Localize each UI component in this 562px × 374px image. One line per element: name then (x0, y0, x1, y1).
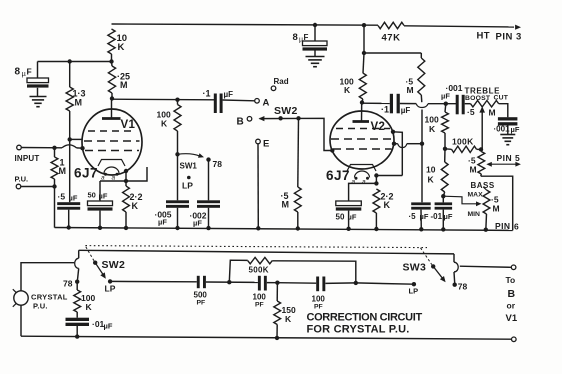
label 10K lower (426, 165, 436, 185)
HT arrowhead to PIN 3 (515, 25, 521, 30)
svg-text:LP: LP (409, 287, 419, 296)
svg-text:100K: 100K (452, 137, 474, 147)
label P.U. (15, 175, 29, 184)
resistor 150K (274, 283, 281, 338)
label .25M (117, 72, 130, 91)
label .005uF (155, 210, 172, 227)
label .5M filter (406, 77, 414, 96)
label LP SW1 (182, 181, 193, 191)
capacitor 8uF second (303, 25, 328, 56)
label 78 SW2 (63, 279, 73, 289)
capacitor 50uF V1 (88, 201, 113, 228)
terminal P.U. (16, 184, 21, 189)
ground below 8uF first (30, 97, 47, 107)
label 6J7 V1 (74, 166, 98, 181)
label 2.2K V1 (130, 192, 143, 211)
svg-text:µF: µF (104, 322, 113, 331)
svg-text:P.U.: P.U. (15, 175, 29, 184)
SW3 pole (454, 254, 458, 283)
capacitor 500pF (197, 276, 206, 288)
label .5uF V1 (58, 192, 78, 203)
label CUT (494, 95, 509, 102)
node A1 decoupling junction (109, 59, 113, 63)
terminal E (256, 139, 261, 144)
label 100pF first (253, 293, 267, 309)
resistor 1M (51, 148, 58, 187)
svg-text:K: K (161, 119, 168, 129)
svg-text:M: M (489, 108, 496, 118)
capacitor .1uF second (390, 94, 400, 114)
tube V1 anode bar (102, 99, 121, 119)
wire 100pF second to corner (325, 282, 355, 285)
label V1 (121, 119, 136, 131)
tube V1 heater structure (98, 160, 125, 182)
label TREBLE (465, 87, 501, 96)
resistor 100K V2 anode (359, 53, 366, 103)
svg-text:F: F (27, 67, 32, 77)
svg-text:PIN 5: PIN 5 (497, 153, 521, 163)
svg-text:SW2: SW2 (102, 259, 126, 271)
svg-text:µF: µF (444, 212, 453, 221)
capacitor 100pF first (258, 276, 267, 291)
svg-text:SW3: SW3 (403, 262, 427, 274)
node ground rail 50uF V1 (98, 226, 102, 230)
svg-text:8: 8 (293, 32, 298, 43)
svg-text:PIN 3: PIN 3 (496, 32, 522, 43)
label 47K (382, 33, 401, 44)
label SW2 upper (274, 105, 298, 117)
node ground rail .01uF (441, 227, 445, 231)
svg-text:K: K (428, 175, 435, 185)
node rail pickup (75, 334, 79, 338)
wire HT to node X (363, 25, 365, 53)
resistor 100K pickup (74, 282, 81, 318)
node ground rail .5uF (67, 225, 71, 229)
label 78 SW3 (458, 282, 468, 292)
wire input to grid (21, 145, 82, 148)
capacitor 8uF first (27, 62, 49, 97)
label .1uF second (381, 105, 410, 116)
SW2 lower blade (93, 261, 106, 279)
wire 1.3M down to .5uF (69, 139, 71, 202)
node ground rail E (256, 226, 260, 230)
svg-text:MIN: MIN (468, 211, 481, 218)
node 1.3M top (68, 59, 72, 63)
svg-text:µF: µF (348, 213, 357, 222)
node ground rail 50uF V2 (346, 227, 350, 231)
svg-text:SW2: SW2 (274, 105, 298, 117)
node HT junction 8uF (313, 23, 317, 27)
label .5uF V2 (409, 212, 429, 221)
svg-text:B: B (508, 288, 516, 300)
wire pin5 pot to pin6 rail (481, 176, 513, 230)
label BOOST (465, 95, 491, 102)
node ground rail .5M grid (296, 226, 300, 230)
svg-text:A: A (263, 98, 270, 109)
label MAX (468, 192, 484, 199)
node SW2 pivot (278, 116, 282, 120)
svg-text:µF: µF (401, 106, 411, 115)
svg-text:M: M (59, 166, 67, 176)
node V2 anode (360, 100, 364, 104)
resistor 100K vertical (442, 104, 449, 149)
label To B or V1 (506, 275, 518, 324)
label 150K (282, 305, 296, 324)
node grid entry V1 (80, 146, 84, 150)
wire PU to bottom rail (20, 305, 22, 336)
tube V2 heater structure (347, 165, 376, 186)
node SW1 pivot (175, 152, 179, 156)
svg-text:FOR CRYSTAL P.U.: FOR CRYSTAL P.U. (307, 324, 410, 336)
svg-text:·5: ·5 (409, 212, 417, 221)
node V2 cathode lower (374, 181, 378, 185)
node 1M bottom (52, 184, 56, 188)
node cathode loop junction (124, 179, 128, 183)
svg-text:HT: HT (477, 31, 490, 42)
node Q2 (479, 147, 483, 151)
wire 500pF to 100pF (206, 281, 258, 283)
svg-text:K: K (429, 124, 436, 134)
node HT junction 47K left (362, 23, 366, 27)
potentiometer treble .5M (471, 101, 499, 107)
label .002uF (190, 211, 207, 228)
node V2 screen side (391, 130, 395, 134)
svg-text:µF: µF (224, 90, 234, 99)
node V1 cathode (124, 169, 128, 173)
capacitor .005uF (166, 200, 189, 228)
label .5M grid (281, 191, 290, 210)
svg-text:µF: µF (511, 125, 520, 134)
wire upper ground rail (55, 228, 513, 231)
node ground rail .005uF (175, 226, 179, 230)
node contact 78 SW3 (453, 283, 457, 287)
tube V1 envelope (82, 109, 142, 175)
switch SW1 blade (178, 153, 205, 158)
label LP SW3 (409, 287, 419, 296)
svg-text:a: a (352, 179, 356, 186)
wire 1.3M to tube (70, 138, 82, 140)
svg-text:50: 50 (88, 191, 96, 200)
tube V2 grid dashes (331, 129, 393, 150)
capacitor .001 treble (456, 95, 465, 115)
svg-text:-01: -01 (431, 212, 443, 221)
label .001 treble (441, 83, 463, 101)
svg-text:M: M (407, 85, 414, 95)
svg-text:47K: 47K (382, 33, 401, 44)
resistor .5M filter (418, 53, 425, 102)
wire corner to LP SW3 (356, 283, 414, 284)
wire X to .5M filter (364, 52, 421, 54)
node contact LP SW1 (187, 176, 191, 180)
wire SW1 to .005uF (177, 154, 179, 200)
SW3 blade (431, 264, 446, 282)
node tap2 (275, 281, 279, 285)
svg-text:Rad: Rad (274, 77, 289, 86)
capacitor 50uF V2 (336, 201, 362, 229)
svg-text:6J7: 6J7 (326, 168, 350, 183)
svg-text:To: To (506, 275, 516, 285)
SW2 lower pole (75, 250, 79, 281)
label 2.2K V2 (381, 192, 394, 211)
label E (263, 139, 269, 150)
resistor .25M (108, 62, 115, 99)
capacitor .1uF first (214, 94, 223, 114)
node contact 78 SW1 (206, 157, 210, 161)
label 10K (117, 33, 128, 53)
svg-text:µ: µ (299, 37, 303, 44)
label .01uF V2 (431, 212, 453, 221)
capacitor .5uF V2 (411, 202, 431, 229)
svg-text:E: E (263, 139, 269, 150)
svg-text:LP: LP (105, 284, 116, 294)
svg-text:·1: ·1 (203, 89, 211, 99)
label 1M (59, 158, 67, 177)
wire 500K loop (229, 260, 355, 283)
label V2 (371, 121, 386, 133)
terminal to B or V1 (511, 265, 516, 270)
potentiometer bass .5M (483, 187, 490, 231)
node ground rail .002uF (206, 226, 210, 230)
node tap1 (227, 280, 231, 284)
node 1.3M bottom (68, 137, 72, 141)
svg-text:50: 50 (336, 213, 345, 222)
label .01uF pickup (92, 319, 113, 331)
svg-text:·5: ·5 (58, 192, 66, 202)
node contact LP SW2 (108, 279, 112, 283)
svg-text:CORRECTION CIRCUIT: CORRECTION CIRCUIT (307, 312, 423, 324)
node bass wiper junction (441, 194, 445, 198)
svg-text:78: 78 (63, 279, 73, 289)
label LP SW2 (105, 284, 116, 294)
label 78 SW1 (213, 159, 223, 169)
resistor 2.2K V2 (373, 189, 380, 229)
node V2 grid entry (330, 148, 334, 152)
ground below 8uF second (306, 57, 325, 67)
label 1.3M (73, 89, 86, 108)
svg-text:µF: µF (69, 194, 78, 203)
svg-text:or: or (507, 301, 516, 311)
potentiometer .5M pin5 (478, 152, 485, 177)
wire .5M filter to .5uF (421, 110, 423, 203)
wire 78 to .002uF (208, 160, 210, 201)
node ground rail bass (484, 228, 488, 232)
terminal A (255, 99, 260, 104)
resistor 500K (248, 257, 273, 263)
label .5M pin5 (468, 156, 477, 175)
resistor 10K lower (441, 149, 448, 196)
label 100K horizontal (452, 137, 474, 147)
svg-text:78: 78 (458, 282, 468, 292)
tube V1 grid dashes (84, 131, 140, 151)
resistor 47K (378, 22, 404, 28)
wire HT rail (112, 24, 515, 27)
node X (362, 51, 366, 55)
svg-text:K: K (285, 314, 292, 324)
svg-text:P.U.: P.U. (33, 302, 48, 311)
svg-text:10: 10 (426, 165, 436, 175)
wire V1 anode to A (112, 99, 255, 101)
svg-text:B: B (237, 117, 244, 128)
label SW2 lower (102, 259, 126, 271)
label .001uF ground (494, 125, 520, 135)
resistor 1.3M (66, 62, 73, 140)
svg-text:V1: V1 (506, 313, 518, 324)
svg-text:µF: µF (441, 92, 450, 101)
node ground rail 2.2K V1 (124, 226, 128, 230)
wire V2 anode to cap (362, 102, 390, 104)
label MIN (468, 211, 481, 218)
svg-text:K: K (384, 200, 391, 210)
node V2 grid side (392, 142, 396, 146)
wire SW3 pole to terminal (460, 266, 512, 267)
caption line 1 (307, 312, 423, 324)
svg-text:MAX: MAX (468, 192, 484, 199)
node contact 78 SW2 (75, 280, 79, 284)
svg-text:M: M (120, 80, 128, 90)
node V2 cathode (374, 173, 378, 177)
svg-text:M: M (493, 204, 500, 214)
resistor 2.2K V1 (123, 186, 130, 228)
svg-text:µF: µF (158, 218, 167, 227)
svg-text:K: K (118, 42, 125, 53)
svg-text:V1: V1 (121, 119, 136, 131)
node V1 anode (110, 96, 114, 100)
node Q1 (443, 147, 447, 151)
capacitor .5uF V1 (57, 202, 80, 227)
wire cap to treble with hop (400, 104, 456, 108)
label 100K V2 anode (340, 77, 354, 96)
svg-text:PIN: PIN (495, 221, 510, 231)
terminal bottom right (512, 337, 517, 342)
SW3 gang link (421, 248, 432, 265)
wire tap2 to 100pF second (277, 282, 316, 285)
ground below .001uF (500, 135, 515, 145)
svg-text:100: 100 (312, 295, 326, 304)
resistor 10K (108, 29, 115, 62)
label CRYSTAL P.U. (31, 293, 68, 311)
svg-text:6: 6 (514, 222, 519, 232)
wire PU to ground rail (21, 187, 55, 228)
label 50uF V1 (88, 191, 108, 201)
svg-text:78: 78 (213, 159, 223, 169)
resistor 100K V1 (174, 100, 181, 155)
svg-text:BASS: BASS (471, 181, 495, 190)
wire cathode loop (100, 167, 147, 201)
svg-text:6J7: 6J7 (74, 166, 98, 181)
node contact LP SW3 (412, 282, 416, 286)
svg-text:K: K (344, 85, 351, 95)
svg-text:K: K (86, 302, 93, 312)
label 100K V1 (157, 110, 171, 129)
node corner 500K right (354, 281, 358, 285)
label INPUT (15, 154, 40, 163)
capacitor .01uF V2 (435, 196, 453, 230)
label 500K (249, 266, 269, 275)
caption line 2 (307, 324, 410, 336)
label .5M treble (467, 107, 496, 118)
label 8uF first (15, 67, 32, 79)
label A (263, 98, 270, 109)
wire V2 grid feedback with hop (394, 144, 422, 148)
label PIN 6 (495, 221, 519, 232)
label PIN 5 (497, 153, 521, 163)
svg-text:F: F (304, 33, 309, 42)
node 100K top V1 (175, 98, 179, 102)
svg-text:CRYSTAL: CRYSTAL (31, 293, 68, 302)
capacitor .002uF (197, 200, 220, 228)
svg-text:PF: PF (255, 302, 264, 309)
label BASS (471, 181, 495, 190)
svg-text:LP: LP (182, 181, 193, 191)
svg-text:·001: ·001 (494, 125, 511, 134)
resistor .5M grid (294, 118, 301, 228)
label 100pF second (312, 295, 326, 311)
SW2 gang link (86, 247, 95, 261)
wire E to ground rail (257, 144, 259, 228)
node treble input (444, 102, 448, 106)
svg-text:a: a (362, 179, 366, 186)
label 50uF V2 (336, 213, 357, 222)
svg-text:500K: 500K (249, 266, 269, 275)
svg-text:SW1: SW1 (180, 162, 198, 171)
svg-text:·5: ·5 (467, 107, 475, 117)
label SW3 (403, 262, 427, 274)
label SW1 (180, 162, 198, 171)
bass wiper arm (443, 196, 481, 206)
node feedback junction (420, 142, 424, 146)
wire bottom rail (21, 336, 512, 339)
svg-text:8: 8 (15, 67, 21, 78)
resistor 100K horizontal (445, 146, 481, 152)
svg-text:µF: µF (420, 212, 429, 221)
label 100K pickup (81, 293, 95, 312)
wire screen loop (393, 132, 402, 176)
svg-text:M: M (470, 165, 477, 175)
svg-text:100: 100 (425, 115, 439, 125)
treble wiper (479, 106, 485, 149)
terminal INPUT (17, 145, 22, 150)
label B (237, 117, 244, 128)
label .1uF first (203, 89, 234, 100)
box top line (79, 250, 454, 254)
tube V2 anode bar (353, 103, 370, 122)
gang dotted line (85, 246, 427, 248)
capacitor .001uF ground (498, 117, 518, 134)
pin5 wiper arrows (486, 162, 521, 167)
wire PU to SW2 pole (21, 263, 74, 291)
node .5M branch (296, 116, 300, 120)
svg-text:INPUT: INPUT (15, 154, 40, 163)
node ground rail .5uF V2 (419, 227, 423, 231)
svg-text:V2: V2 (371, 121, 386, 133)
label HT PIN 3 (477, 31, 522, 43)
label .5M bass (491, 195, 500, 214)
wire treble to .001uF (499, 104, 508, 118)
capacitor 100pF second (316, 277, 325, 292)
svg-text:M: M (75, 98, 83, 108)
wire 100pF to tap2 (267, 282, 278, 284)
svg-text:500: 500 (194, 291, 208, 300)
svg-text:100: 100 (253, 293, 267, 302)
svg-text:·1: ·1 (381, 105, 389, 115)
wire cap to treble pot (465, 103, 471, 105)
label Rad (274, 77, 289, 86)
label 8uF second (293, 32, 309, 44)
wire LP to 500pF (110, 280, 197, 282)
label 6J7 V2 (326, 168, 350, 183)
wire decoupling rail (38, 61, 112, 63)
wire V2 cathode loop (349, 176, 403, 202)
